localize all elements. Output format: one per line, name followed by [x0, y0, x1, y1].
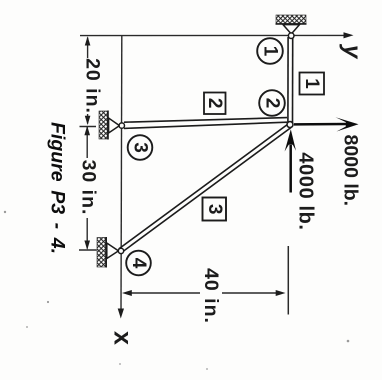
support at node 4 (bottom-left wall)	[97, 237, 119, 268]
member box 1	[300, 73, 325, 95]
force arrow 8000 lb	[294, 117, 359, 131]
y axis	[80, 32, 354, 38]
svg-text:3: 3	[204, 204, 225, 215]
svg-text:x: x	[108, 331, 136, 345]
member 3	[119, 124, 291, 253]
node circle 3	[128, 135, 153, 160]
dimension 40 in	[122, 246, 288, 325]
member 1	[288, 37, 293, 123]
pin circle node 1	[288, 33, 294, 39]
svg-text:3: 3	[130, 142, 151, 153]
member box 3	[203, 198, 227, 221]
svg-text:y: y	[339, 44, 366, 60]
svg-text:Figure P3 - 4.: Figure P3 - 4.	[47, 122, 69, 254]
node circle 2	[259, 90, 285, 116]
svg-text:1: 1	[260, 46, 281, 57]
support at node 3 (left wall)	[99, 111, 120, 140]
x axis	[118, 36, 124, 319]
dimension 20 in	[82, 36, 102, 125]
member 2	[124, 118, 287, 129]
scan specks	[4, 211, 350, 370]
svg-text:2: 2	[262, 98, 283, 109]
svg-text:1: 1	[301, 78, 322, 89]
svg-text:8000 lb.: 8000 lb.	[340, 135, 362, 207]
pin circle node 3	[119, 123, 124, 128]
svg-text:2: 2	[204, 98, 225, 109]
svg-text:20 in.: 20 in.	[82, 58, 104, 114]
support at node 1 (top wall)	[276, 15, 307, 34]
force arrow 4000 lb	[285, 129, 296, 192]
node circle 1	[257, 38, 283, 64]
pin circle node 4	[118, 248, 123, 253]
svg-text:30 in.: 30 in.	[78, 160, 100, 216]
node circle 4	[126, 251, 151, 276]
svg-text:4: 4	[128, 258, 149, 269]
member box 2	[204, 93, 226, 115]
dimension 30 in	[79, 126, 100, 250]
joint pin circle node 2	[287, 122, 293, 128]
svg-text:40 in.: 40 in.	[200, 268, 222, 324]
svg-text:4000 lb.: 4000 lb.	[295, 152, 317, 230]
